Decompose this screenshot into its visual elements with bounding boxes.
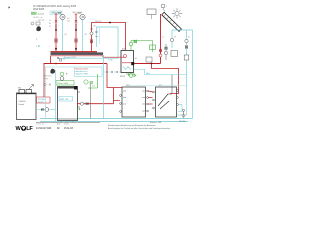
- HK1 valve dot: [55, 29, 57, 31]
- tank top label green: [56, 81, 74, 86]
- HK2 dark segment: [75, 24, 77, 31]
- HK1 flow pipe: [55, 14, 57, 51]
- cyan drop from manifold: [103, 55, 105, 119]
- pipe below manifold red: [51, 55, 104, 57]
- manifold motor box: [59, 59, 62, 61]
- solar collector: [161, 12, 181, 32]
- dark column x166: [165, 44, 167, 60]
- corner mark: [9, 6, 11, 8]
- svg-text:13-52-017-946: 13-52-017-946: [36, 128, 52, 130]
- station valve column 2: [170, 38, 177, 56]
- boiler flow drop: [50, 56, 52, 64]
- svg-text:Tmax 95: Tmax 95: [58, 59, 65, 61]
- box B pins left: [153, 91, 155, 109]
- storage tank: [58, 87, 78, 121]
- controller box A: [122, 87, 146, 117]
- HK2 sensor square: [79, 12, 81, 14]
- tank bottom line: [58, 118, 78, 120]
- svg-text:eBus: eBus: [146, 73, 150, 75]
- DHW loop red box: [92, 23, 126, 52]
- small box right of station: [146, 57, 152, 62]
- svg-text:zirk: zirk: [92, 86, 95, 88]
- eBUS chain: [104, 71, 121, 73]
- controller box B: [156, 87, 177, 117]
- legend icon rect: [36, 22, 40, 25]
- legend green box: [31, 12, 37, 15]
- svg-text:CGB-50: CGB-50: [19, 101, 26, 103]
- boiler: [17, 93, 37, 120]
- svg-text:Massbezogene Ausführung und Ei: Massbezogene Ausführung und Einbauort de…: [108, 124, 156, 127]
- cyan wiring bottom right: [177, 88, 187, 115]
- DHW pump: [90, 32, 93, 35]
- bus line 2: [40, 121, 188, 123]
- box B pins right: [177, 90, 179, 106]
- tank side ticks: [78, 91, 81, 93]
- green group under station: [126, 73, 136, 78]
- svg-text:15.11.03: 15.11.03: [64, 128, 73, 130]
- svg-text:Puffer SEM: Puffer SEM: [57, 82, 68, 85]
- station black port: [131, 62, 134, 65]
- capillary line: [171, 75, 173, 94]
- green pump: [84, 80, 88, 84]
- red wires between boxes: [148, 91, 152, 104]
- cyan drop left: [55, 70, 57, 122]
- HK2 pump: [80, 14, 85, 19]
- ground circle: [182, 109, 184, 111]
- cyan bus wires to station: [134, 70, 187, 75]
- stamp blob: [36, 26, 41, 31]
- box A bus drops: [125, 117, 127, 119]
- manifold dark bar: [51, 52, 104, 55]
- solar return to station: [134, 63, 161, 65]
- DHW coil inner line: [99, 27, 101, 44]
- HK1 lower valve: [55, 39, 57, 43]
- long red supply line: [44, 63, 108, 65]
- station feed elbow: [102, 56, 104, 57]
- svg-text:M2: M2: [85, 34, 87, 36]
- dark circle: [60, 77, 64, 81]
- HK1 valve: [55, 20, 57, 22]
- transfer station box: [121, 51, 134, 73]
- boiler riser red: [43, 64, 45, 104]
- svg-text:Anschlussplan der Technik mit: Anschlussplan der Technik mit allen Vors…: [108, 127, 171, 130]
- red stub to box A pin: [114, 100, 121, 102]
- DHW fittings: [96, 31, 98, 33]
- station valve column 1: [164, 47, 167, 55]
- DHW valve: [90, 40, 92, 44]
- manifold valve symbol: [57, 57, 59, 59]
- green riser: [97, 74, 99, 88]
- box B relay contacts: [158, 94, 169, 109]
- svg-text:Kessel: Kessel: [38, 102, 44, 104]
- boiler top connections: [19, 90, 25, 94]
- box A pins right: [147, 90, 149, 112]
- svg-text:Tvl 60: Tvl 60: [108, 60, 113, 62]
- WOLF logo: [16, 126, 34, 132]
- svg-text:PE 230V: PE 230V: [179, 121, 186, 123]
- outlet valve: [80, 102, 83, 105]
- HK1 return pipe: [62, 20, 64, 55]
- cyan frame left: [45, 67, 47, 119]
- box A pins left: [120, 95, 122, 113]
- HK1 dot2: [55, 48, 57, 50]
- svg-text:Datum: Datum: [64, 123, 70, 126]
- svg-text:→ ← sym ab: → ← sym ab: [33, 20, 44, 22]
- bus connector ticks: [60, 121, 62, 123]
- HK1 sensor square: [59, 12, 61, 14]
- svg-text:VL: VL: [49, 20, 51, 22]
- svg-text:Zeichn.-Nr.: Zeichn.-Nr.: [36, 123, 45, 126]
- green solar group: [129, 40, 155, 52]
- svg-text:4-mod: 4-mod: [38, 13, 45, 15]
- tank red outlet: [78, 103, 114, 105]
- circulation line: [36, 109, 56, 111]
- DHW tick: [90, 28, 92, 30]
- svg-text:SF: SF: [174, 37, 176, 39]
- dark drop line: [90, 84, 92, 119]
- svg-text:Speicher WW: Speicher WW: [76, 74, 88, 76]
- svg-text:VL RL t° xx: VL RL t° xx: [33, 16, 42, 19]
- boiler label box: [37, 97, 51, 103]
- red feed junction dot: [151, 63, 153, 65]
- circulation valve: [41, 108, 43, 110]
- title block: [36, 122, 100, 124]
- svg-text:M1: M1: [65, 34, 67, 36]
- red feed wire down: [152, 64, 179, 94]
- HK1 dark segment: [55, 24, 57, 31]
- red fittings on solar flow: [159, 49, 161, 52]
- station inner red: [122, 62, 131, 64]
- svg-text:07-UNIVERS-02-0325, Rohr-Leitu: 07-UNIVERS-02-0325, Rohr-Leitung 0325: [33, 5, 77, 8]
- manifold red bar: [51, 51, 98, 52]
- sun: [172, 8, 182, 18]
- HK2 valve dot: [75, 29, 77, 31]
- svg-text:LF: LF: [26, 126, 33, 132]
- green sensor circle: [60, 72, 64, 76]
- svg-text:KW 10: KW 10: [120, 76, 125, 78]
- station pump: [123, 54, 126, 57]
- tank inner label: [59, 97, 73, 102]
- solar flow pipe: [160, 14, 162, 64]
- legend cyan box: [50, 11, 62, 14]
- DHW coil cyan: [97, 27, 119, 58]
- collector sensor: [162, 5, 165, 8]
- bus line 1: [40, 118, 193, 120]
- HK2 lower valve: [75, 39, 77, 43]
- svg-text:VL: VL: [162, 37, 164, 39]
- tank black port: [74, 86, 77, 90]
- station valve column 3: [184, 39, 189, 60]
- HK2 flow pipe: [75, 14, 77, 51]
- solar station right columns: [172, 30, 193, 119]
- svg-text:◊⇅: ◊⇅: [18, 87, 21, 90]
- cyan header line: [62, 57, 118, 59]
- legend icon circle: [31, 22, 34, 25]
- svg-text:RL: RL: [188, 37, 190, 39]
- station red line in: [103, 56, 126, 58]
- heating circuit 2: [67, 12, 85, 54]
- ground symbol: [182, 112, 186, 118]
- svg-text:BSP 750: BSP 750: [60, 99, 69, 101]
- HK2 valve: [75, 20, 77, 22]
- HK1 pump: [60, 14, 65, 19]
- supply junction dot: [55, 63, 57, 65]
- cyan note box: [75, 67, 103, 77]
- HK2 dot2: [75, 48, 77, 50]
- svg-text:WW KW: WW KW: [95, 21, 102, 23]
- svg-text:Blatt: Blatt: [57, 123, 61, 126]
- DHW junction dot: [109, 22, 111, 24]
- heating circuit 1: [53, 12, 66, 54]
- collector label box: [147, 9, 156, 15]
- svg-text:Kessel: Kessel: [19, 104, 25, 106]
- station coil: [123, 67, 131, 70]
- wolf blob: [50, 69, 55, 74]
- red riser to module: [113, 88, 115, 104]
- circulation pump: [45, 108, 49, 112]
- svg-text:xx yy: xx yy: [44, 78, 48, 80]
- HK2 return pipe: [82, 20, 84, 55]
- svg-text:Erdung n. VDE: Erdung n. VDE: [150, 121, 162, 124]
- svg-text:RL: RL: [49, 23, 51, 25]
- box A inner ticks: [123, 91, 145, 111]
- module feed red: [107, 64, 122, 88]
- svg-text:APW 0325: APW 0325: [33, 8, 45, 11]
